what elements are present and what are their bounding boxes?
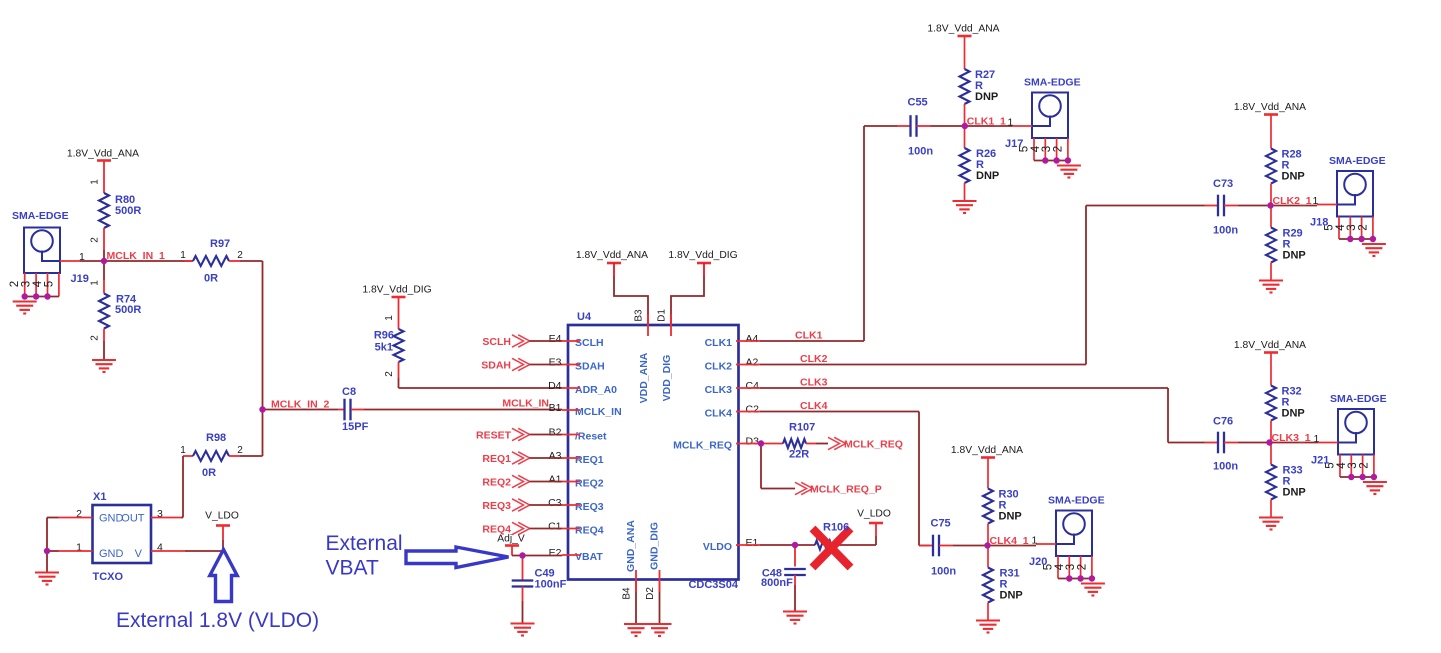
- svg-text:GND_DIG: GND_DIG: [649, 522, 661, 570]
- svg-text:CLK1: CLK1: [795, 330, 823, 342]
- svg-text:REQ3: REQ3: [575, 501, 604, 513]
- svg-text:CLK3_1: CLK3_1: [1272, 432, 1311, 444]
- svg-text:MCLK_IN: MCLK_IN: [502, 398, 549, 410]
- svg-text:5k1: 5k1: [375, 342, 393, 354]
- svg-text:A2: A2: [746, 356, 759, 368]
- svg-text:REQ1: REQ1: [575, 454, 604, 466]
- svg-text:1.8V_Vdd_ANA: 1.8V_Vdd_ANA: [951, 445, 1023, 456]
- svg-text:REQ1: REQ1: [482, 453, 511, 465]
- svg-text:CLK2: CLK2: [800, 353, 828, 365]
- svg-text:RESET: RESET: [476, 430, 512, 442]
- svg-text:C76: C76: [1213, 416, 1233, 428]
- svg-text:3: 3: [1041, 146, 1053, 152]
- svg-text:15PF: 15PF: [342, 421, 369, 433]
- svg-text:1: 1: [384, 315, 395, 321]
- svg-text:SMA-EDGE: SMA-EDGE: [1048, 495, 1105, 507]
- svg-text:SMA-EDGE: SMA-EDGE: [1330, 393, 1387, 405]
- svg-text:D1: D1: [657, 309, 668, 322]
- svg-text:GND_ANA: GND_ANA: [625, 520, 637, 572]
- svg-text:500R: 500R: [115, 205, 141, 217]
- svg-text:2: 2: [1358, 462, 1370, 468]
- svg-text:4: 4: [32, 280, 44, 287]
- svg-text:C8: C8: [342, 386, 356, 398]
- svg-text:C73: C73: [1213, 178, 1233, 190]
- svg-text:0R: 0R: [202, 467, 216, 479]
- svg-text:V_LDO: V_LDO: [857, 509, 891, 520]
- svg-text:2: 2: [1052, 146, 1064, 152]
- svg-text:External: External: [326, 532, 403, 555]
- svg-text:CLK1: CLK1: [705, 337, 733, 349]
- svg-text:REQ2: REQ2: [482, 477, 511, 489]
- svg-text:5: 5: [1324, 224, 1336, 230]
- svg-text:/Reset: /Reset: [575, 430, 607, 442]
- svg-text:R96: R96: [374, 330, 394, 342]
- svg-text:1: 1: [90, 179, 101, 185]
- svg-text:2: 2: [237, 445, 243, 456]
- svg-text:3: 3: [1346, 224, 1358, 230]
- svg-text:B4: B4: [622, 587, 633, 600]
- svg-text:REQ4: REQ4: [575, 524, 604, 536]
- svg-text:VBAT: VBAT: [575, 551, 603, 563]
- svg-text:B2: B2: [549, 426, 562, 438]
- svg-text:1.8V_Vdd_ANA: 1.8V_Vdd_ANA: [67, 149, 139, 160]
- svg-text:C1: C1: [548, 520, 562, 532]
- svg-text:VDD_DIG: VDD_DIG: [661, 355, 673, 402]
- svg-text:GND: GND: [99, 548, 124, 560]
- svg-text:500R: 500R: [115, 304, 141, 316]
- svg-text:2: 2: [1357, 224, 1369, 230]
- svg-text:C55: C55: [908, 97, 928, 109]
- svg-text:1.8V_Vdd_ANA: 1.8V_Vdd_ANA: [927, 24, 999, 35]
- svg-text:3: 3: [21, 281, 33, 287]
- svg-text:V: V: [135, 548, 143, 560]
- svg-text:5: 5: [1325, 462, 1337, 468]
- svg-text:SCLH: SCLH: [482, 336, 511, 348]
- svg-text:1.8V_Vdd_ANA: 1.8V_Vdd_ANA: [1234, 102, 1306, 113]
- svg-text:2: 2: [384, 371, 395, 377]
- svg-text:1.8V_Vdd_ANA: 1.8V_Vdd_ANA: [1234, 340, 1306, 351]
- svg-text:DNP: DNP: [999, 511, 1022, 523]
- svg-text:1: 1: [180, 250, 186, 261]
- svg-text:B3: B3: [634, 309, 645, 322]
- svg-text:DNP: DNP: [1000, 590, 1023, 602]
- svg-text:2: 2: [237, 250, 243, 261]
- svg-text:R97: R97: [210, 238, 230, 250]
- svg-text:1.8V_Vdd_DIG: 1.8V_Vdd_DIG: [362, 285, 431, 296]
- svg-text:MCLK_IN_1: MCLK_IN_1: [107, 250, 166, 262]
- svg-text:CDC3S04: CDC3S04: [688, 579, 738, 591]
- svg-text:DNP: DNP: [1282, 408, 1305, 420]
- svg-text:V_LDO: V_LDO: [205, 511, 239, 522]
- svg-text:SMA-EDGE: SMA-EDGE: [1024, 77, 1081, 89]
- svg-text:VBAT: VBAT: [326, 557, 379, 580]
- svg-text:100n: 100n: [931, 566, 956, 578]
- svg-text:C2: C2: [746, 403, 760, 415]
- svg-text:CLK4: CLK4: [705, 407, 733, 419]
- svg-text:2: 2: [9, 281, 21, 287]
- svg-text:C4: C4: [746, 380, 760, 392]
- svg-text:3: 3: [1347, 462, 1359, 468]
- svg-text:E2: E2: [549, 547, 562, 559]
- svg-text:SMA-EDGE: SMA-EDGE: [1329, 155, 1386, 167]
- svg-text:External 1.8V (VLDO): External 1.8V (VLDO): [116, 609, 319, 632]
- svg-text:SMA-EDGE: SMA-EDGE: [12, 210, 69, 222]
- svg-text:VLDO: VLDO: [703, 541, 732, 553]
- svg-text:4: 4: [1054, 563, 1066, 570]
- svg-text:ADR_A0: ADR_A0: [575, 384, 617, 396]
- svg-text:CLK1_1: CLK1_1: [967, 116, 1006, 128]
- svg-text:MCLK_IN: MCLK_IN: [575, 406, 622, 418]
- svg-text:CLK2_1: CLK2_1: [1273, 195, 1312, 207]
- svg-text:D4: D4: [548, 380, 562, 392]
- svg-text:DNP: DNP: [1282, 171, 1305, 183]
- svg-text:2: 2: [90, 335, 101, 341]
- svg-text:DNP: DNP: [1283, 250, 1306, 262]
- svg-text:1: 1: [1313, 195, 1319, 207]
- svg-text:OUT: OUT: [121, 513, 145, 525]
- svg-text:E3: E3: [549, 356, 562, 368]
- svg-text:D3: D3: [746, 435, 760, 447]
- svg-text:E4: E4: [549, 333, 562, 345]
- svg-text:REQ3: REQ3: [482, 500, 511, 512]
- svg-text:U4: U4: [577, 311, 592, 323]
- svg-text:1.8V_Vdd_ANA: 1.8V_Vdd_ANA: [576, 250, 648, 261]
- svg-text:5: 5: [1043, 564, 1055, 570]
- svg-text:MCLK_REQ: MCLK_REQ: [844, 439, 903, 451]
- svg-text:E1: E1: [746, 537, 759, 549]
- svg-text:TCXO: TCXO: [93, 571, 124, 583]
- svg-text:MCLK_REQ: MCLK_REQ: [673, 439, 732, 451]
- svg-text:GND: GND: [99, 513, 124, 525]
- svg-text:X1: X1: [93, 491, 106, 503]
- svg-text:100n: 100n: [1213, 461, 1238, 473]
- svg-text:DNP: DNP: [975, 91, 998, 103]
- svg-text:CLK2: CLK2: [705, 360, 733, 372]
- svg-text:0R: 0R: [204, 273, 218, 285]
- svg-text:CLK3: CLK3: [705, 384, 733, 396]
- svg-text:1.8V_Vdd_DIG: 1.8V_Vdd_DIG: [668, 250, 737, 261]
- svg-text:100n: 100n: [908, 146, 933, 158]
- svg-text:SDAH: SDAH: [481, 360, 511, 372]
- svg-text:D2: D2: [645, 587, 656, 600]
- svg-text:3: 3: [1065, 564, 1077, 570]
- svg-text:J19: J19: [71, 273, 89, 285]
- svg-text:5: 5: [1019, 146, 1031, 152]
- svg-text:100n: 100n: [1213, 225, 1238, 237]
- svg-text:SDAH: SDAH: [575, 360, 605, 372]
- svg-text:DNP: DNP: [1283, 487, 1306, 499]
- svg-text:1: 1: [1008, 117, 1014, 129]
- svg-text:1: 1: [1314, 433, 1320, 445]
- svg-text:Adj_V: Adj_V: [497, 534, 525, 545]
- svg-text:1: 1: [90, 280, 101, 286]
- svg-text:800nF: 800nF: [761, 577, 793, 589]
- svg-text:1: 1: [180, 445, 186, 456]
- svg-text:REQ2: REQ2: [575, 477, 604, 489]
- svg-text:CLK4_1: CLK4_1: [990, 535, 1029, 547]
- svg-text:1: 1: [1032, 535, 1038, 547]
- svg-text:VDD_ANA: VDD_ANA: [638, 352, 650, 403]
- svg-text:B1: B1: [549, 402, 562, 414]
- svg-text:MCLK_REQ_P: MCLK_REQ_P: [810, 484, 882, 496]
- svg-text:4: 4: [1030, 145, 1042, 152]
- svg-text:A3: A3: [549, 450, 562, 462]
- svg-text:R107: R107: [789, 422, 815, 434]
- svg-text:SCLH: SCLH: [575, 337, 604, 349]
- svg-text:C3: C3: [548, 497, 562, 509]
- svg-text:100nF: 100nF: [535, 579, 567, 591]
- svg-text:C75: C75: [931, 518, 951, 530]
- svg-text:CLK3: CLK3: [800, 377, 828, 389]
- svg-text:22R: 22R: [789, 449, 809, 461]
- svg-text:R106: R106: [823, 522, 849, 534]
- svg-text:4: 4: [1335, 224, 1347, 231]
- svg-text:5: 5: [43, 281, 55, 287]
- svg-text:R98: R98: [206, 432, 226, 444]
- svg-text:CLK4: CLK4: [800, 400, 828, 412]
- svg-text:DNP: DNP: [976, 170, 999, 182]
- svg-text:2: 2: [90, 237, 101, 243]
- svg-text:A4: A4: [746, 333, 759, 345]
- svg-text:2: 2: [1076, 564, 1088, 570]
- svg-text:4: 4: [1336, 462, 1348, 469]
- svg-text:A1: A1: [549, 473, 562, 485]
